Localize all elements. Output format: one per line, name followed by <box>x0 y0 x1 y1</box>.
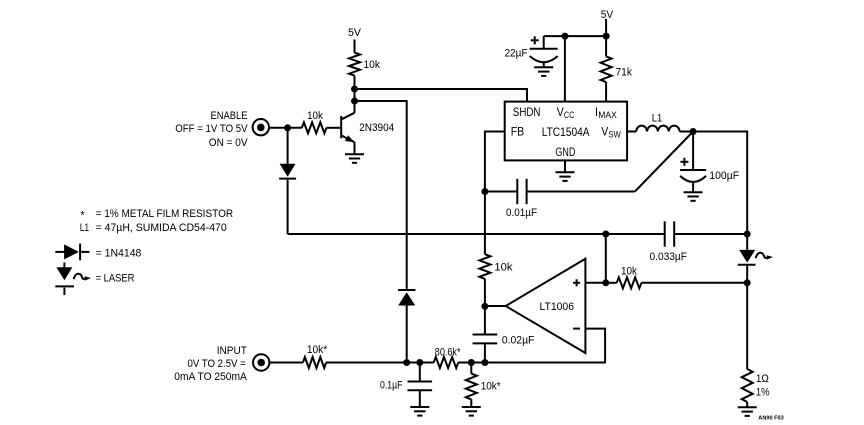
svg-text:5V: 5V <box>601 9 614 21</box>
svg-text:1%: 1% <box>756 387 770 399</box>
svg-text:GND: GND <box>555 145 575 159</box>
resistor R8 10k* to ground <box>470 363 472 374</box>
ground 100uF <box>684 191 703 193</box>
svg-text:ON = 0V: ON = 0V <box>209 137 248 149</box>
node junction dot 10k* tap <box>468 359 475 366</box>
svg-text:0.01µF: 0.01µF <box>506 207 537 219</box>
wire 5V lead <box>605 19 607 36</box>
plus marker U2 <box>573 279 580 286</box>
svg-text:V: V <box>557 105 564 119</box>
ground R9 <box>738 406 757 408</box>
wire minus input feedback <box>458 329 605 363</box>
resistor R4 10k (FB to output) <box>484 192 486 255</box>
svg-text:AN90 F03: AN90 F03 <box>758 416 783 422</box>
svg-text:10k*: 10k* <box>481 381 502 393</box>
node junction dot laser anode <box>744 231 751 238</box>
node junction dot output <box>481 303 488 310</box>
capacitor C6 0.1uF <box>408 363 433 408</box>
wire U2 output <box>485 305 506 307</box>
laser diode LD1 (circuit) <box>738 234 773 283</box>
wire 5V lead to R1 <box>354 40 356 53</box>
svg-text:0V TO 2.5V =: 0V TO 2.5V = <box>188 358 246 370</box>
svg-text:22µF: 22µF <box>505 47 528 59</box>
capacitor C5 0.02uF <box>473 306 498 362</box>
svg-text:71k: 71k <box>616 66 633 78</box>
node junction dot plus input <box>602 279 609 286</box>
svg-text:80.6k*: 80.6k* <box>435 347 461 359</box>
svg-text:10k*: 10k* <box>307 344 328 356</box>
node junction dot IMAX top <box>603 33 610 40</box>
resistor R3 71k <box>605 36 607 56</box>
plus sign for 22uF <box>531 36 539 44</box>
legend diode symbol 1N4148 <box>55 244 89 261</box>
resistor R6 10k* input <box>269 362 303 364</box>
svg-text:= 1N4148: = 1N4148 <box>96 248 142 260</box>
svg-text:ENABLE: ENABLE <box>211 110 248 122</box>
node junction dot VCC <box>561 33 568 40</box>
svg-text:0mA TO 250mA: 0mA TO 250mA <box>174 371 247 383</box>
resistor R1 10k (collector pull-up) <box>349 53 360 76</box>
svg-text:FB: FB <box>511 124 525 138</box>
node junction dot VSW-L1 output <box>690 128 697 135</box>
svg-text:L1: L1 <box>80 222 90 234</box>
svg-text:10k: 10k <box>494 262 513 274</box>
inductor L1 <box>627 126 693 132</box>
wire collector to SHDN pin <box>355 89 528 102</box>
ground 0.1uF <box>410 406 429 408</box>
wire ENABLE connector to R2 <box>269 127 302 129</box>
wire R1 bottom to Q1 collector <box>354 76 356 113</box>
svg-text:LT1006: LT1006 <box>540 301 575 313</box>
minus marker U2 <box>573 328 580 330</box>
svg-text:10k: 10k <box>621 266 637 278</box>
svg-text:10k: 10k <box>364 59 381 71</box>
legend laser diode symbol <box>55 263 91 296</box>
diode D1 (ENABLE clamp, pointing down) <box>279 128 296 234</box>
ground U1 GND <box>556 171 575 173</box>
wire R2 to Q1 base <box>327 127 341 129</box>
svg-text:SW: SW <box>608 130 621 140</box>
svg-text:10k: 10k <box>307 110 323 122</box>
svg-text:CC: CC <box>564 110 575 120</box>
wire net bus D1 cathode to 0.033uF <box>288 233 665 235</box>
node junction dot D2 anode <box>403 359 410 366</box>
svg-text:= 1% METAL FILM RESISTOR: = 1% METAL FILM RESISTOR <box>96 208 234 220</box>
resistor R5 10k (plus input to laser cathode) <box>606 282 617 284</box>
svg-text:L1: L1 <box>652 113 663 125</box>
resistor R9 1 ohm sense <box>746 283 748 369</box>
ground R8 <box>462 406 481 408</box>
svg-text:OFF = 1V TO 5V: OFF = 1V TO 5V <box>175 123 248 135</box>
node junction dot FB node <box>481 188 488 195</box>
node junction dot bus-plus-input <box>602 231 609 238</box>
node junction dot 0.02uF bottom <box>481 359 488 366</box>
node junction dot ENABLE <box>284 124 291 131</box>
wire L1 node to laser branch <box>693 132 747 235</box>
svg-text:V: V <box>601 124 608 138</box>
svg-text:2N3904: 2N3904 <box>359 122 394 134</box>
svg-text:SHDN: SHDN <box>513 105 541 119</box>
capacitor C2 0.01uF <box>485 179 635 204</box>
svg-text:0.02µF: 0.02µF <box>502 335 535 347</box>
wire diagonal 0.01uF to VSW node <box>635 132 693 192</box>
diode D2 1N4148 clamp (pointing up) <box>398 290 416 363</box>
capacitor C4 0.033uF <box>665 221 748 246</box>
ground Q1 emitter <box>345 153 364 155</box>
op-amp U2 LT1006 triangle <box>506 259 586 353</box>
plus sign for 100uF <box>680 158 688 166</box>
op-amp U1 LTC1504A box <box>505 102 627 161</box>
svg-text:1Ω: 1Ω <box>756 373 769 385</box>
connector J2 INPUT <box>253 354 269 370</box>
wire FB pin <box>485 132 505 192</box>
svg-text:= 47µH, SUMIDA CD54-470: = 47µH, SUMIDA CD54-470 <box>96 222 227 234</box>
node junction dot 0.1uF tap <box>416 359 423 366</box>
svg-text:0.1µF: 0.1µF <box>380 379 403 391</box>
node junction dot collector-SHDN <box>351 86 358 93</box>
svg-text:INPUT: INPUT <box>217 345 247 357</box>
wire VCC pin <box>564 36 566 102</box>
wire collector to clamp diode D2 <box>355 101 407 289</box>
resistor R7 80.6k* <box>434 357 459 368</box>
wire 5V rail to 22uF <box>544 35 606 37</box>
svg-text:0.033µF: 0.033µF <box>650 251 688 263</box>
svg-text:*: * <box>80 209 85 221</box>
svg-text:5V: 5V <box>348 27 362 39</box>
svg-text:= LASER: = LASER <box>96 273 135 285</box>
capacitor C1 22uF polarized <box>530 36 558 67</box>
capacitor C3 100uF polarized <box>680 132 706 193</box>
node junction dot laser cathode <box>744 279 751 286</box>
svg-text:MAX: MAX <box>598 110 617 120</box>
wire GND pin <box>564 160 566 172</box>
svg-text:LTC1504A: LTC1504A <box>542 125 590 139</box>
wire plus input <box>585 282 605 284</box>
svg-text:100µF: 100µF <box>709 170 739 182</box>
transistor Q1 2N3904 <box>341 113 354 154</box>
resistor R2 10k (base) <box>302 122 327 133</box>
ground 22uF <box>534 66 553 68</box>
connector J1 ENABLE input <box>253 119 269 135</box>
wire bus to plus input <box>605 234 607 283</box>
node junction dot collector-clamp <box>351 98 358 105</box>
